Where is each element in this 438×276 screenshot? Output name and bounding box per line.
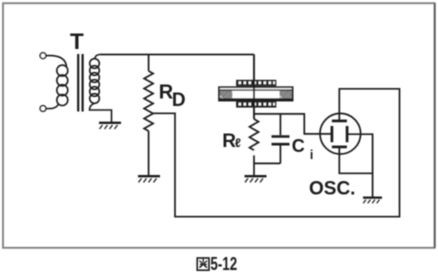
oscillator tube OSC envelope: [320, 113, 361, 154]
wire top rail: [100, 54, 254, 56]
wire primary top lead: [46, 56, 67, 67]
wire feedback loop: OSC top, right side, bottom, up to R_D tap: [153, 89, 399, 217]
caption boxed kanji (zu): [197, 258, 209, 270]
wire R_D bottom to ground: [148, 131, 150, 176]
crystal right mount (crosshatch): [280, 90, 292, 98]
wire tube bottom lead: [339, 147, 372, 197]
wire primary bottom lead: [46, 104, 59, 109]
wire R_D drop from top rail: [148, 55, 150, 72]
svg-text:ℓ: ℓ: [235, 136, 241, 150]
border right edge (darker in scan): [434, 3, 436, 248]
svg-text:C: C: [292, 136, 305, 156]
svg-text:i: i: [310, 148, 313, 162]
tube left bar: [331, 126, 334, 142]
transformer T secondary winding: [90, 59, 100, 104]
transformer T primary winding: [57, 65, 68, 105]
wire secondary top lead: [95, 55, 101, 59]
tube bottom plate bar: [332, 146, 347, 149]
transformer T primary terminal bottom: [40, 106, 46, 112]
transformer T core: [78, 54, 82, 112]
wire node line to OSC gate (step): [254, 114, 332, 134]
wire Rl-Ci bottom link: [254, 162, 280, 164]
ground (Rl): [245, 176, 267, 182]
resistor R_D: [144, 71, 153, 131]
capacitor Ci top wire: [279, 114, 281, 135]
transformer T primary terminal top: [40, 53, 46, 59]
wire tube right lead: [347, 134, 373, 173]
crystal inner bottom thickening: [220, 98, 292, 100]
crystal top electrode: [236, 80, 276, 87]
ground (transformer secondary): [99, 123, 121, 129]
crystal resonator main bar: [219, 87, 293, 100]
ground (OSC cathode): [363, 198, 382, 204]
svg-text:OSC.: OSC.: [309, 178, 355, 199]
ground (R_D): [138, 176, 160, 182]
svg-text:T: T: [70, 29, 84, 54]
svg-text:D: D: [172, 90, 186, 111]
svg-text:5-12: 5-12: [210, 254, 237, 274]
capacitor Ci plates: [272, 137, 290, 145]
wire through crystal down to node: [253, 55, 255, 120]
wire Rl bottom to ground: [253, 155, 255, 175]
crystal bottom electrode: [236, 101, 276, 108]
crystal left mount (crosshatch): [220, 90, 232, 98]
tube top plate bar: [332, 120, 347, 123]
capacitor Ci bottom wire: [279, 146, 281, 164]
resistor Rl: [250, 119, 259, 150]
tube right bar: [346, 126, 349, 142]
crystal inner top line: [220, 89, 292, 91]
wire secondary bottom lead to ground: [90, 103, 112, 122]
